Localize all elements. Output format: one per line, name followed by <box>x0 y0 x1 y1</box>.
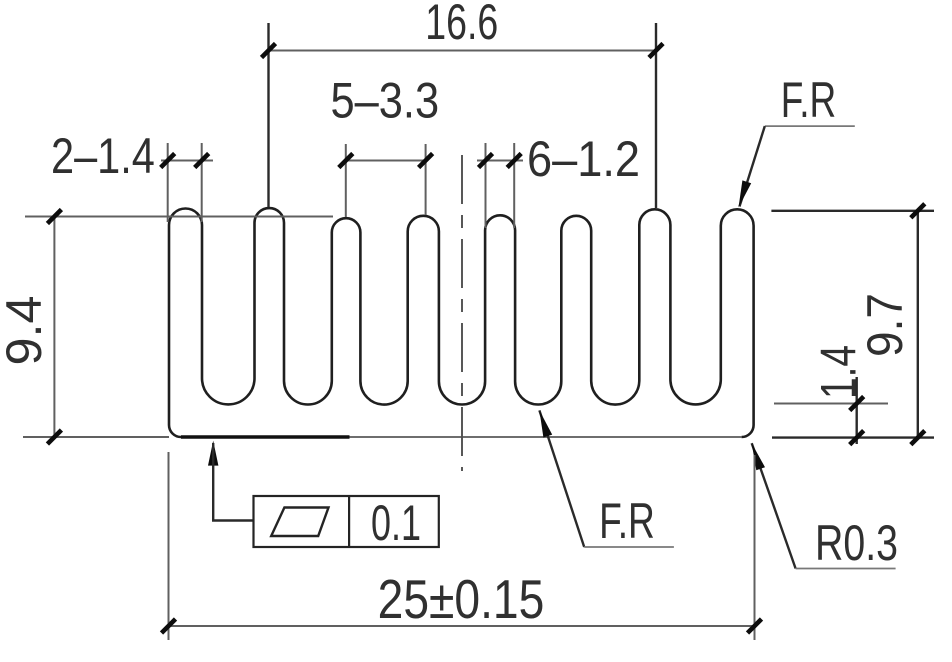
flatness symbol <box>271 508 328 537</box>
extension line bottom-left <box>23 436 169 438</box>
dimension 1.4 top ext line <box>774 403 888 405</box>
svg-text:R0.3: R0.3 <box>815 515 898 571</box>
F.R top leader <box>765 125 855 127</box>
dimension 9.7 line <box>917 211 919 438</box>
svg-text:0.1: 0.1 <box>371 495 421 551</box>
center line <box>461 155 463 471</box>
dimension 2-1.4 line <box>161 160 213 162</box>
svg-text:F.R: F.R <box>599 493 655 549</box>
dimension 5-3.3 line <box>346 160 426 162</box>
svg-text:16.6: 16.6 <box>425 0 498 50</box>
dimension 2-1.4 ext lines <box>167 143 169 222</box>
dimension 16.6 ext lines <box>267 23 269 207</box>
dimension 1.4 line <box>856 377 858 444</box>
dimension 25 ext lines <box>168 452 170 640</box>
F.R bottom leader <box>539 410 584 547</box>
dimension 9.7 top ext line <box>771 210 934 212</box>
svg-text:5–3.3: 5–3.3 <box>331 73 440 129</box>
svg-text:F.R: F.R <box>781 72 837 128</box>
base bottom edge thick segment <box>181 435 350 438</box>
flatness leader arrow <box>208 441 218 466</box>
svg-text:6–1.2: 6–1.2 <box>527 131 640 187</box>
bottom-right ext line <box>772 436 934 438</box>
dimension 9.4 line <box>53 217 55 438</box>
dimension 16.6 line <box>269 50 657 52</box>
base bottom-left corner <box>169 425 181 437</box>
dimension 6-1.2 line <box>477 160 523 162</box>
svg-text:25±0.15: 25±0.15 <box>378 568 545 630</box>
dimension 25 line <box>169 625 755 627</box>
svg-text:1.4: 1.4 <box>811 345 867 399</box>
R0.3 leader <box>752 443 796 568</box>
dimension 5-3.3 ext lines <box>345 144 347 217</box>
heatsink profile outline <box>169 208 754 437</box>
base bottom edge thin segment <box>350 436 742 438</box>
dimension 6-1.2 ext lines <box>485 143 487 228</box>
feature control frame <box>254 496 439 547</box>
svg-text:2–1.4: 2–1.4 <box>51 128 155 184</box>
svg-text:9.4: 9.4 <box>0 296 52 366</box>
extension line top-left <box>25 216 333 218</box>
